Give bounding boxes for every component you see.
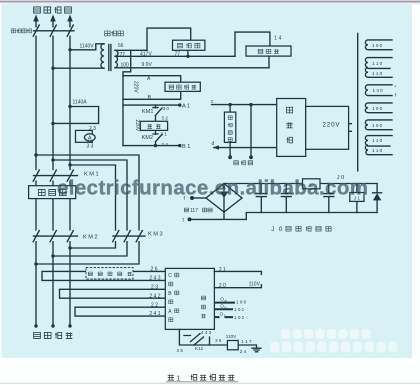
svg-text:417V: 417V — [140, 52, 152, 58]
svg-text:3 2: 3 2 — [162, 116, 169, 121]
svg-text:1 1 0: 1 1 0 — [372, 138, 383, 143]
svg-text:1 3 0: 1 3 0 — [373, 88, 384, 93]
svg-text:1 0 2: 1 0 2 — [234, 315, 245, 320]
svg-text:9 0V: 9 0V — [142, 62, 153, 68]
svg-text:117: 117 — [190, 208, 198, 214]
svg-text:B 1: B 1 — [182, 144, 190, 150]
svg-text:2 4: 2 4 — [240, 349, 247, 354]
svg-text:b: b — [225, 306, 227, 310]
svg-text:1 1 0: 1 1 0 — [372, 148, 383, 153]
svg-text:2 6: 2 6 — [151, 267, 158, 273]
svg-text:110V: 110V — [249, 281, 261, 287]
svg-text:A 1: A 1 — [182, 104, 190, 110]
svg-text:1 1 7: 1 1 7 — [241, 339, 252, 344]
svg-text:3 4: 3 4 — [162, 142, 169, 147]
svg-text:3 3: 3 3 — [87, 143, 94, 149]
svg-text:KM2: KM2 — [142, 135, 154, 141]
svg-text:A: A — [88, 136, 92, 142]
svg-text:1 1 0: 1 1 0 — [372, 61, 383, 66]
svg-text:220V: 220V — [134, 120, 140, 132]
svg-text:3 0: 3 0 — [163, 106, 170, 111]
svg-text:K12: K12 — [195, 346, 204, 351]
svg-text:1 0 1: 1 0 1 — [234, 307, 245, 312]
svg-text:d: d — [212, 141, 215, 147]
svg-text:1 4: 1 4 — [274, 36, 281, 42]
svg-text:K M 2: K M 2 — [83, 234, 98, 240]
svg-text:electricfurnace.en.alibaba.com: electricfurnace.en.alibaba.com — [57, 177, 368, 200]
svg-text:3 5: 3 5 — [177, 348, 184, 353]
svg-text:220V: 220V — [323, 121, 341, 128]
svg-text:C: C — [168, 273, 172, 279]
svg-text:1140A: 1140A — [73, 100, 88, 106]
svg-text:66: 66 — [118, 43, 124, 49]
svg-text:3 6: 3 6 — [215, 338, 222, 343]
svg-text:110V: 110V — [226, 334, 237, 339]
svg-text:2 3: 2 3 — [151, 284, 158, 290]
svg-text:c: c — [224, 314, 226, 318]
svg-text:*: * — [395, 85, 397, 90]
svg-text:1140V: 1140V — [80, 43, 95, 49]
svg-text:J 0: J 0 — [271, 226, 283, 233]
svg-text:1 0 0: 1 0 0 — [372, 123, 383, 128]
svg-text:2 4 1: 2 4 1 — [149, 311, 160, 317]
svg-text:4 4 3: 4 4 3 — [201, 330, 212, 335]
svg-text:1 1 0: 1 1 0 — [372, 71, 383, 76]
svg-text:1 0 0: 1 0 0 — [372, 106, 383, 111]
svg-text:220V: 220V — [133, 81, 139, 93]
svg-text:77: 77 — [120, 52, 126, 58]
svg-text:2 0: 2 0 — [219, 283, 226, 289]
svg-text:2 1: 2 1 — [219, 267, 226, 273]
svg-text:K M 3: K M 3 — [148, 231, 163, 237]
svg-text:1: 1 — [177, 375, 181, 382]
svg-text:2 2: 2 2 — [151, 302, 158, 308]
svg-text:1 0 0: 1 0 0 — [372, 43, 383, 48]
svg-text:KM1: KM1 — [142, 109, 154, 115]
svg-text:100: 100 — [121, 62, 130, 68]
svg-text:77: 77 — [175, 52, 181, 58]
svg-text:a: a — [225, 299, 227, 303]
svg-text:2 3: 2 3 — [89, 126, 96, 132]
svg-text:3 1: 3 1 — [161, 132, 168, 137]
svg-text:2 4 2: 2 4 2 — [149, 293, 160, 299]
svg-text:1 0 0: 1 0 0 — [236, 300, 247, 305]
svg-text:2 4 3: 2 4 3 — [149, 276, 160, 282]
